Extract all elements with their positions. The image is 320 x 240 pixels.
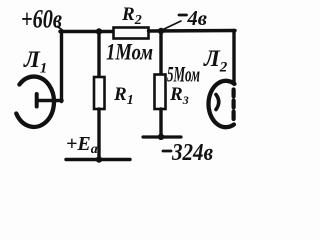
- tube Л2 cathode arc: [216, 95, 219, 110]
- node junction -324v: [158, 134, 164, 140]
- wire anode Л1 horizontal: [37, 99, 62, 102]
- wire riser to top rail: [60, 32, 63, 102]
- tube Л1 anode bar: [35, 94, 39, 107]
- tube Л1 envelope arc: [16, 77, 54, 127]
- wire top rail right: [149, 29, 236, 33]
- svg-text:4в: 4в: [187, 6, 208, 30]
- svg-text:1Мом: 1Мом: [106, 40, 153, 65]
- resistor R3 body: [155, 75, 166, 110]
- resistor R1 body: [94, 77, 105, 109]
- wire R1 bottom lead: [97, 109, 100, 160]
- wire R1 top lead: [97, 32, 100, 78]
- wire right drop to Л2 grid: [232, 31, 235, 84]
- label -324в minus: [163, 150, 171, 153]
- tube Л2 envelope arc: [209, 81, 235, 127]
- node junction -4v: [158, 28, 164, 34]
- leader tail from +60v label to wire: [58, 27, 64, 32]
- svg-text:324в: 324в: [171, 140, 213, 166]
- tube Л2 grid dashes: [232, 90, 236, 120]
- label -4в minus: [179, 14, 187, 17]
- wire R3 bottom lead: [159, 109, 162, 137]
- node junction R1 bottom: [96, 156, 102, 162]
- leader line to -4v label: [163, 21, 181, 30]
- wire R3 top lead: [159, 31, 162, 75]
- wire bottom rail +Ea: [66, 158, 130, 161]
- wire -324v node bar: [143, 135, 181, 138]
- resistor R2 body: [114, 28, 149, 39]
- node junction R1 top: [96, 28, 102, 34]
- wire top rail left: [60, 30, 114, 33]
- svg-text:5Мом: 5Мом: [167, 62, 200, 87]
- svg-text:+60в: +60в: [21, 5, 62, 34]
